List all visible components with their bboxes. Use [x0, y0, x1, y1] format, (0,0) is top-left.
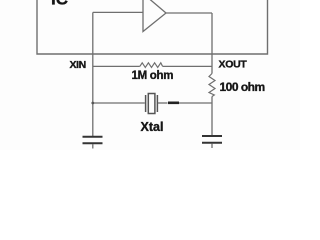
wire XIN riser [92, 12, 94, 136]
capacitor C2 bottom plate [202, 142, 222, 144]
wire 1M left [93, 65, 140, 67]
IC box U1 [37, 0, 268, 54]
wire XOUT riser upper [211, 13, 213, 74]
op-amp inverter A1 [143, 0, 166, 32]
wire dash to XOUT [179, 102, 212, 104]
wire thick dash segment [168, 102, 179, 105]
svg-text:IC: IC [51, 0, 68, 9]
wire crystal right [158, 102, 168, 104]
wire C1 to ground [92, 144, 94, 149]
wire crystal left [93, 102, 145, 104]
wire inverter input [93, 11, 143, 13]
capacitor C1 bottom plate [83, 142, 103, 144]
svg-text:100 ohm: 100 ohm [220, 80, 265, 94]
svg-text:XOUT: XOUT [219, 59, 248, 71]
crystal Y1 body [148, 94, 155, 114]
svg-text:Xtal: Xtal [141, 120, 164, 134]
junction node XIN-crystal [91, 102, 94, 105]
svg-text:1M ohm: 1M ohm [132, 70, 174, 82]
wire C2 to ground [211, 143, 213, 148]
crystal Y1 left plate [145, 95, 147, 112]
resistor R2 zigzag [209, 74, 215, 97]
crystal Y1 right plate [156, 95, 158, 112]
resistor R1 zigzag [140, 63, 163, 68]
svg-text:XIN: XIN [70, 59, 86, 71]
capacitor C1 top plate [83, 136, 103, 138]
wire 1M right [163, 65, 212, 67]
wire inverter output [166, 12, 212, 14]
capacitor C2 top plate [202, 135, 222, 137]
wire XOUT riser lower [211, 97, 213, 136]
